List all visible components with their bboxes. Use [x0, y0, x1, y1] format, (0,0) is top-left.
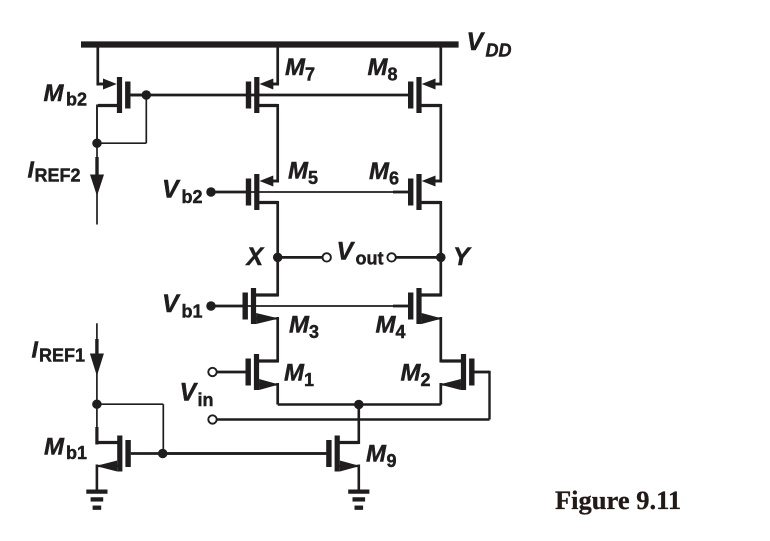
svg-text:I: I	[28, 157, 35, 183]
svg-text:b1: b1	[66, 443, 87, 463]
node Mb1 gate junction	[158, 449, 168, 459]
ground Mb1	[86, 492, 107, 508]
svg-text:REF1: REF1	[39, 346, 85, 366]
svg-text:M: M	[369, 158, 390, 185]
svg-text:X: X	[245, 243, 265, 271]
wire M8 drain to M6 source	[439, 104, 442, 183]
transistor M1	[217, 354, 279, 390]
ground M9	[348, 492, 369, 508]
svg-text:V: V	[180, 379, 199, 407]
wire tail node	[278, 403, 441, 406]
svg-text:8: 8	[388, 65, 398, 85]
wire M9 source to ground	[357, 465, 360, 492]
wire VDD rail to Mb2 source	[96, 46, 99, 86]
svg-text:7: 7	[305, 65, 315, 85]
svg-text:b1: b1	[182, 301, 203, 321]
wire M3 source to M1 drain	[276, 317, 279, 363]
wire M1 source to tail node	[276, 383, 279, 405]
svg-text:3: 3	[309, 322, 319, 342]
node tail junction	[354, 400, 364, 410]
transistor M8	[408, 77, 441, 113]
wire M4 source to M2 drain	[439, 317, 442, 363]
wire M7 drain to M5 source	[276, 104, 279, 183]
node X	[273, 253, 283, 263]
svg-text:M: M	[284, 360, 305, 387]
svg-text:V: V	[162, 176, 181, 204]
wire Vb2 to M6 gate	[250, 191, 394, 193]
node Vb1	[206, 301, 216, 311]
wire Mb1 drain	[96, 404, 98, 428]
svg-text:REF2: REF2	[35, 166, 81, 186]
wire Mb2 diode loop vertical	[145, 95, 147, 143]
wire VDD rail	[81, 41, 459, 47]
wire M6 drain to node Y	[439, 201, 442, 257]
transistor M5	[246, 174, 278, 210]
svg-text:V: V	[337, 237, 356, 265]
node Vb2	[206, 187, 216, 197]
wire Mb1 source to ground	[96, 465, 99, 492]
svg-text:V: V	[467, 28, 486, 56]
wire node X to Vout terminal	[278, 256, 323, 259]
node Mb2 gate junction	[142, 90, 152, 100]
terminal Vin plus	[208, 368, 216, 376]
wire VDD rail to M7 source	[276, 46, 279, 86]
svg-text:6: 6	[389, 169, 399, 189]
svg-text:M: M	[288, 158, 309, 185]
transistor Mb2	[98, 77, 147, 113]
svg-text:Figure 9.11: Figure 9.11	[555, 485, 681, 515]
wire Vb1 to M4 gate	[247, 305, 394, 307]
wire Mb1 diode loop vertical	[162, 404, 164, 453]
svg-text:M: M	[44, 434, 65, 461]
terminal Vin minus	[208, 415, 216, 423]
current source IREF1 arrow	[90, 323, 104, 404]
svg-text:M: M	[401, 360, 422, 387]
current source IREF2 arrow	[90, 143, 104, 224]
node IREF1 junction	[92, 399, 102, 409]
svg-text:1: 1	[304, 370, 314, 390]
wire Vout terminal to node Y	[396, 256, 441, 259]
wire Mb2 diode loop horizontal	[96, 142, 146, 144]
wire Vb2 to M5 gate	[213, 191, 247, 194]
wire Vin minus to M2 gate riser	[217, 418, 490, 420]
transistor M2	[440, 354, 490, 390]
svg-text:M: M	[44, 80, 65, 107]
svg-text:I: I	[32, 336, 39, 362]
transistor M7	[246, 77, 278, 113]
transistor M9	[163, 436, 360, 472]
svg-text:out: out	[356, 248, 384, 268]
svg-text:4: 4	[396, 322, 406, 342]
svg-text:M: M	[285, 54, 306, 81]
terminal Vout left	[323, 253, 331, 261]
transistor M4	[408, 288, 442, 324]
svg-text:9: 9	[387, 451, 397, 471]
svg-text:M: M	[368, 54, 389, 81]
svg-text:M: M	[376, 312, 397, 339]
node Y	[436, 253, 446, 263]
wire M2 source to tail node	[439, 383, 442, 405]
wire VDD rail to M8 source	[439, 46, 442, 86]
wire node X to M3 drain	[276, 257, 279, 296]
wire M5 drain to node X	[276, 201, 279, 257]
svg-text:in: in	[198, 390, 214, 410]
svg-text:b2: b2	[66, 90, 87, 110]
terminal Vout right	[387, 253, 395, 261]
svg-text:M: M	[366, 441, 387, 468]
wire node Y to M4 drain	[439, 257, 442, 296]
svg-text:5: 5	[308, 168, 318, 188]
svg-text:2: 2	[421, 370, 431, 390]
transistor M6	[408, 174, 441, 210]
svg-text:DD: DD	[486, 41, 512, 61]
wire M2 gate riser	[488, 371, 490, 420]
wire Mb1 gate to M9 gate	[163, 452, 327, 455]
svg-text:M: M	[289, 312, 310, 339]
node Mb2 drain junction	[92, 138, 102, 148]
svg-text:Y: Y	[453, 243, 472, 271]
wire Mb1 diode loop horizontal	[97, 403, 163, 405]
wire Mb2 gate to M7 and M8 gates	[131, 94, 409, 97]
transistor Mb1	[96, 436, 163, 472]
transistor M3	[243, 288, 279, 324]
svg-text:b2: b2	[182, 187, 203, 207]
wire tail to M9 drain	[357, 405, 360, 445]
svg-text:V: V	[162, 290, 181, 318]
wire Vb1 to M3 gate	[213, 305, 243, 308]
wire Mb2 drain	[96, 105, 98, 144]
